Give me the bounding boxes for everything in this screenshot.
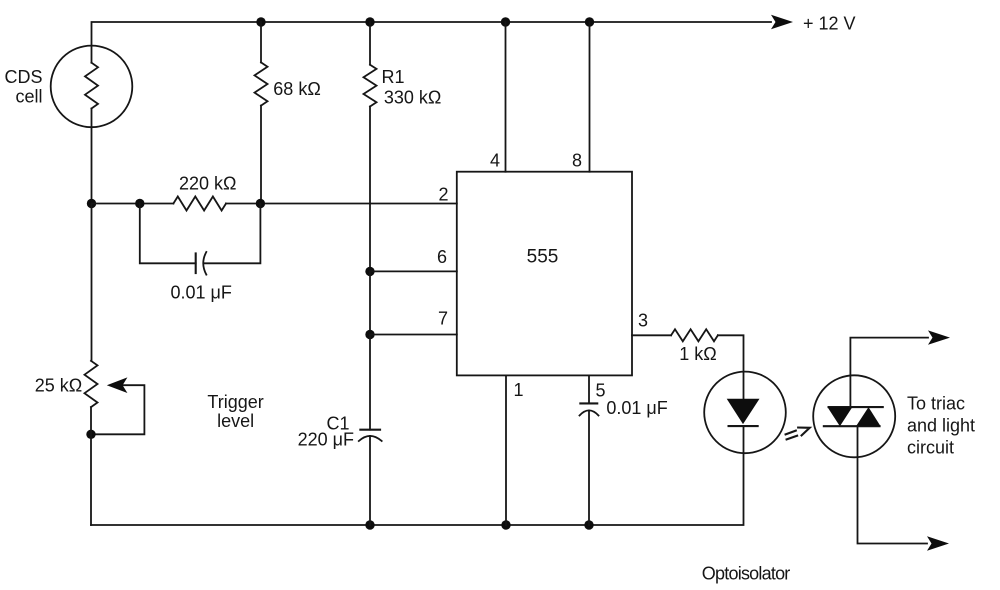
top output arrowhead: [928, 330, 950, 344]
label 220 kOhm: [179, 173, 237, 193]
svg-text:0.01 μF: 0.01 μF: [606, 398, 667, 418]
label 555: [527, 247, 559, 268]
junction R1 / pin 6: [365, 267, 374, 276]
junction bottom rail / C1: [365, 520, 374, 529]
wire R1 top: [369, 22, 371, 65]
resistor 220k: [173, 197, 226, 211]
svg-text:6: 6: [437, 247, 447, 267]
label 1 kOhm: [679, 344, 716, 364]
LED cathode bar: [728, 425, 759, 427]
wire divider node to 220k: [92, 203, 174, 205]
junction bottom rail / pin 5: [584, 520, 593, 529]
pin label 7: [438, 308, 448, 328]
triac top bar: [828, 406, 884, 408]
wire pin 1: [505, 375, 507, 525]
junction 220k left / cap loop: [135, 199, 144, 208]
wire pin 4: [505, 22, 507, 172]
wire pin 5 lower: [588, 411, 590, 526]
wire pin 8: [589, 22, 591, 172]
wire pin 6: [370, 270, 457, 272]
op-amp/timer IC 555 box: [457, 172, 632, 376]
triac left triangle: [828, 407, 853, 426]
optoisolator LED circle: [704, 372, 786, 454]
wire 68k bottom: [260, 106, 262, 204]
wire bottom ground rail: [91, 426, 744, 525]
svg-text:0.01 μF: 0.01 μF: [171, 283, 232, 303]
pin label 5: [595, 381, 605, 401]
svg-text:and light: and light: [907, 416, 975, 436]
wire triac MT2 to top arrow: [850, 338, 928, 408]
resistor 1k: [671, 329, 718, 341]
capacitor 0.01uF pin 5: [579, 403, 598, 415]
resistor 68k: [255, 62, 268, 105]
label 25 kOhm: [35, 376, 82, 396]
capacitor C1 220uF: [359, 430, 382, 441]
LED triangle: [727, 399, 760, 424]
wire top +12V supply rail: [92, 22, 772, 63]
label Optoisolator: [702, 564, 791, 584]
junction top rail / R1: [365, 17, 374, 26]
svg-text:220 kΩ: 220 kΩ: [179, 173, 237, 193]
label To triac and light circuit: [907, 394, 975, 458]
svg-text:330 kΩ: 330 kΩ: [384, 88, 442, 108]
junction top rail / pin 8: [585, 17, 594, 26]
svg-text:220 μF: 220 μF: [298, 430, 354, 450]
light emission arrows: [785, 428, 810, 440]
svg-text:Trigger: Trigger: [207, 392, 263, 412]
label Trigger level: [207, 392, 263, 431]
svg-text:7: 7: [438, 308, 448, 328]
photoresistor CDS cell: [51, 46, 133, 128]
triac circle: [813, 375, 895, 457]
svg-text:555: 555: [527, 247, 559, 268]
svg-text:CDS: CDS: [4, 67, 42, 87]
svg-text:25 kΩ: 25 kΩ: [35, 376, 82, 396]
wire R1 bottom to pin6 node: [369, 107, 371, 272]
wire CDS cell to divider node: [91, 109, 93, 204]
svg-text:2: 2: [438, 185, 448, 205]
svg-text:R1: R1: [382, 67, 405, 87]
pin label 1: [513, 380, 523, 400]
pin label 4: [490, 151, 500, 171]
junction CDS / 220k row: [87, 199, 96, 208]
wire pin 5 upper: [588, 375, 590, 403]
label 0.01 uF feedback: [171, 283, 232, 303]
pin label 6: [437, 247, 447, 267]
wire pot to bottom rail: [90, 407, 92, 525]
svg-text:3: 3: [638, 311, 648, 331]
svg-text:Optoisolator: Optoisolator: [702, 564, 791, 584]
junction R1 / pin 7: [365, 330, 374, 339]
svg-text:68 kΩ: 68 kΩ: [273, 79, 320, 99]
triac bottom bar: [823, 425, 881, 427]
wire pin6 node to pin7 node: [369, 271, 371, 334]
wire cap loop left: [140, 204, 196, 264]
svg-text:To triac: To triac: [907, 394, 965, 414]
wire triac MT1 to bottom arrow: [858, 426, 928, 543]
junction top rail / 68k: [256, 17, 265, 26]
wire 220k to pin 2: [226, 203, 457, 205]
label CDS cell: [4, 67, 42, 107]
svg-text:8: 8: [572, 151, 582, 171]
wire pin 7: [370, 334, 457, 336]
label 330 kOhm: [384, 88, 442, 108]
svg-text:5: 5: [595, 381, 605, 401]
+12V arrowhead: [771, 15, 793, 29]
pot wiper arrow: [96, 377, 145, 434]
svg-text:circuit: circuit: [907, 438, 954, 458]
pin label 2: [438, 185, 448, 205]
svg-text:+ 12 V: + 12 V: [803, 14, 856, 34]
label C1: [326, 414, 349, 434]
potentiometer 25k: [85, 361, 98, 407]
label 0.01 uF pin 5: [606, 398, 667, 418]
wire 68k top: [260, 22, 262, 62]
wire C1 to bottom rail: [369, 436, 371, 525]
label R1: [382, 67, 405, 87]
svg-text:level: level: [217, 411, 254, 431]
bottom output arrowhead: [927, 536, 949, 550]
pin label 8: [572, 151, 582, 171]
resistor R1 330k: [364, 65, 377, 107]
junction pot bottom: [86, 430, 95, 439]
svg-text:cell: cell: [15, 87, 42, 107]
label 220 uF: [298, 430, 354, 450]
wire 1k to optoisolator: [718, 335, 744, 398]
svg-text:4: 4: [490, 151, 500, 171]
label 68 kOhm: [273, 79, 320, 99]
wire pin 3: [632, 334, 671, 336]
wire left rail middle: [91, 204, 93, 361]
pin label 3: [638, 311, 648, 331]
capacitor 0.01uF feedback: [196, 252, 207, 275]
junction top rail / pin 4: [501, 17, 510, 26]
wire pin7 node to C1: [369, 335, 371, 430]
label + 12 V: [803, 14, 856, 34]
junction 220k right / cap loop: [256, 199, 265, 208]
svg-text:1 kΩ: 1 kΩ: [679, 344, 716, 364]
svg-text:1: 1: [513, 380, 523, 400]
junction bottom rail / pin 1: [501, 520, 510, 529]
wire cap loop right: [204, 204, 261, 264]
triac right triangle: [856, 407, 881, 426]
